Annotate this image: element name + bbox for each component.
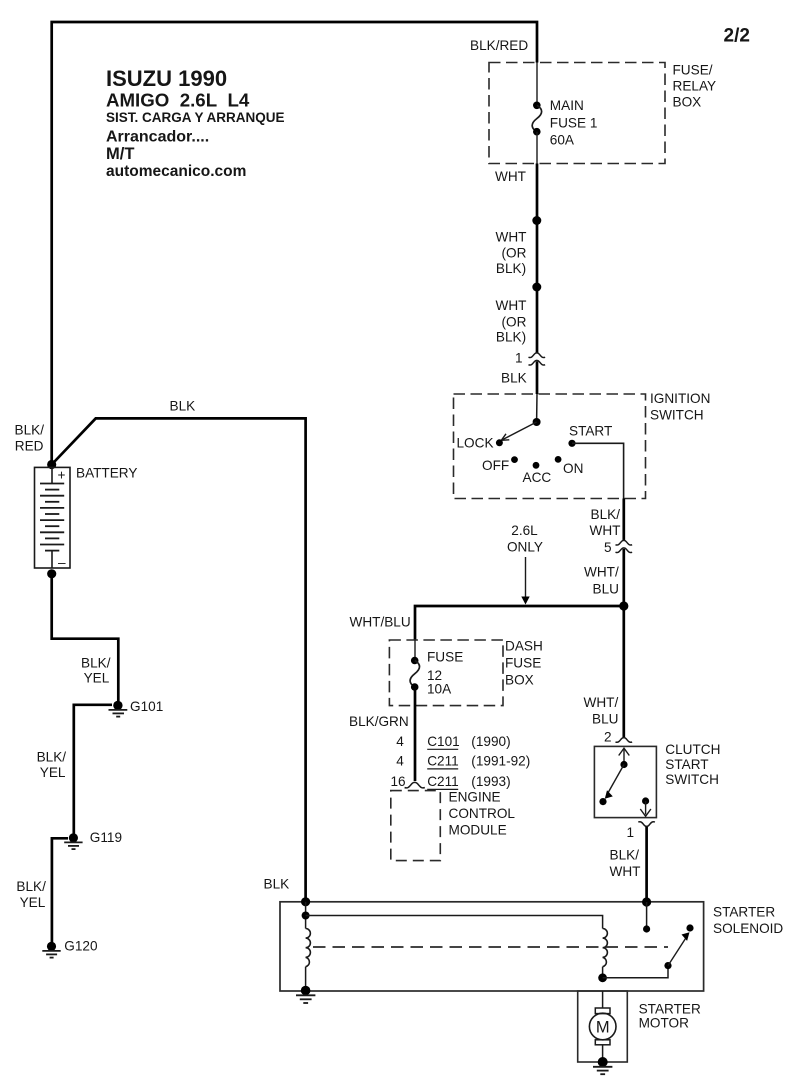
svg-text:BLK: BLK	[264, 877, 290, 892]
svg-text:M/T: M/T	[106, 145, 134, 163]
label BLK/YEL (middle)	[37, 750, 67, 781]
svg-text:FUSE: FUSE	[427, 650, 463, 665]
svg-text:AMIGO 2.6L L4: AMIGO 2.6L L4	[106, 90, 250, 111]
svg-text:WHT: WHT	[590, 523, 621, 538]
svg-text:2.6L: 2.6L	[511, 523, 538, 538]
svg-text:–: –	[58, 555, 66, 570]
svg-text:G119: G119	[90, 830, 122, 845]
clutch switch arm	[605, 765, 624, 799]
svg-text:BOX: BOX	[673, 95, 702, 110]
node BLK at solenoid	[301, 897, 310, 906]
label IGNITION SWITCH	[650, 391, 710, 423]
svg-text:C211: C211	[427, 754, 459, 769]
wire out of fuse (thin)	[536, 132, 538, 164]
svg-text:(1993): (1993)	[471, 774, 510, 789]
svg-text:RELAY: RELAY	[673, 79, 717, 94]
svg-text:C101: C101	[427, 734, 460, 749]
svg-text:IGNITION: IGNITION	[650, 391, 710, 406]
connector 16 arc at ECM	[405, 782, 425, 788]
wire BLK/YEL G119 to G120	[52, 838, 68, 942]
svg-text:DASH: DASH	[505, 639, 543, 654]
node motor ground	[598, 1057, 608, 1067]
svg-text:(1991-92): (1991-92)	[471, 754, 530, 769]
starter solenoid box	[280, 902, 704, 991]
clutch switch up arrow	[619, 748, 630, 768]
label WHT/BLU upper	[584, 565, 619, 597]
svg-text:BLK): BLK)	[496, 261, 526, 276]
underline C101	[427, 748, 458, 750]
label FUSE 12 10A	[427, 650, 463, 697]
svg-text:MOTOR: MOTOR	[639, 1016, 690, 1031]
svg-text:(OR: (OR	[502, 246, 527, 261]
svg-text:CLUTCH: CLUTCH	[665, 742, 720, 757]
svg-text:LOCK: LOCK	[457, 436, 494, 451]
clutch start switch box	[594, 746, 656, 817]
contact ON	[555, 456, 562, 463]
svg-text:Arrancador....: Arrancador....	[106, 129, 209, 146]
pin table rows	[390, 734, 530, 789]
svg-text:M: M	[596, 1018, 610, 1036]
wire to coil contact	[646, 902, 648, 929]
wire from START contact	[572, 443, 624, 498]
wire to moving contact	[603, 966, 668, 978]
ground (motor)	[593, 1067, 612, 1074]
svg-text:2/2: 2/2	[724, 26, 750, 47]
underline C211	[427, 768, 458, 770]
arrow 2.6L ONLY down to wire	[521, 557, 529, 605]
contact ACC	[533, 462, 540, 469]
wire BLK/GRN to ECM	[414, 687, 417, 781]
wire into fuse 12	[414, 640, 416, 661]
battery	[35, 467, 71, 570]
svg-text:BLK/GRN: BLK/GRN	[349, 714, 409, 729]
label CLUTCH START SWITCH	[665, 742, 720, 787]
svg-text:STARTER: STARTER	[713, 905, 775, 920]
label 2.6L ONLY	[507, 523, 543, 555]
contact terminal	[643, 925, 650, 932]
connector 2 (single arc)	[616, 738, 633, 743]
svg-text:START: START	[569, 424, 612, 439]
svg-text:SWITCH: SWITCH	[665, 772, 719, 787]
svg-text:10A: 10A	[427, 682, 452, 697]
wire BLK/WHT to solenoid	[645, 827, 648, 902]
label BLK/YEL (lower)	[16, 879, 46, 910]
svg-text:2: 2	[604, 730, 612, 745]
engine control module box (dashed)	[391, 791, 441, 861]
node battery positive	[47, 460, 56, 469]
junction dot	[532, 283, 541, 292]
fuse/relay box (dashed)	[489, 63, 665, 164]
svg-text:WHT/BLU: WHT/BLU	[350, 615, 411, 630]
svg-text:automecanico.com: automecanico.com	[106, 163, 246, 180]
svg-text:FUSE/: FUSE/	[673, 63, 713, 78]
svg-text:WHT: WHT	[496, 230, 527, 245]
underline C211 (1993)	[427, 788, 458, 790]
connector 1 (pair of arcs)	[529, 353, 546, 365]
svg-text:BLU: BLU	[592, 712, 618, 727]
solenoid coil (left)	[306, 929, 311, 967]
svg-text:60A: 60A	[550, 133, 575, 148]
svg-text:STARTER: STARTER	[639, 1002, 701, 1017]
svg-text:WHT/: WHT/	[584, 565, 619, 580]
title block	[106, 66, 285, 180]
svg-text:(1990): (1990)	[471, 734, 510, 749]
motor M	[589, 991, 616, 1062]
ground G101	[109, 701, 128, 717]
svg-text:BLK/: BLK/	[591, 507, 621, 522]
svg-text:1: 1	[515, 351, 523, 366]
ground (solenoid)	[296, 995, 315, 1003]
svg-text:MAIN: MAIN	[550, 98, 584, 113]
wire WHT/BLU junction to connector 2	[622, 606, 625, 738]
svg-text:4: 4	[396, 754, 404, 769]
svg-text:CONTROL: CONTROL	[449, 806, 516, 821]
svg-text:BATTERY: BATTERY	[76, 466, 137, 481]
svg-text:ISUZU 1990: ISUZU 1990	[106, 66, 227, 91]
svg-text:OFF: OFF	[482, 458, 509, 473]
junction dot	[532, 216, 541, 225]
contact lower right with down arrow	[640, 797, 651, 816]
svg-text:+: +	[58, 468, 66, 483]
wire WHT/BLU connector 5 to junction	[622, 549, 625, 606]
wire BLK battery+ to starter solenoid	[52, 418, 306, 901]
svg-text:SIST. CARGA Y ARRANQUE: SIST. CARGA Y ARRANQUE	[106, 110, 285, 125]
svg-text:(OR: (OR	[502, 315, 527, 330]
wire BLK/YEL battery- to G101	[52, 574, 119, 701]
svg-text:YEL: YEL	[40, 765, 66, 780]
svg-text:FUSE 1: FUSE 1	[550, 116, 598, 131]
connector 1 under clutch switch (cup arc)	[638, 822, 655, 827]
label WHT (OR BLK) lower	[496, 298, 527, 345]
svg-text:BLK/: BLK/	[81, 656, 111, 671]
svg-text:BLK/: BLK/	[37, 750, 67, 765]
solenoid contact arm	[668, 932, 690, 965]
node coil/motor	[598, 973, 607, 982]
contact OFF	[511, 456, 518, 463]
label FUSE/RELAY BOX	[673, 63, 717, 110]
wire BLK/YEL G101 to G119	[74, 705, 112, 834]
svg-text:WHT: WHT	[496, 298, 527, 313]
dash fuse box (dashed)	[389, 640, 503, 706]
label DASH FUSE BOX	[505, 639, 543, 688]
svg-text:YEL: YEL	[20, 895, 46, 910]
svg-text:5: 5	[604, 540, 612, 555]
svg-text:16: 16	[390, 774, 405, 789]
fuse 12 10A	[410, 657, 419, 691]
svg-text:BLU: BLU	[593, 582, 619, 597]
svg-text:WHT: WHT	[495, 169, 526, 184]
contact fixed	[686, 924, 693, 931]
svg-text:SWITCH: SWITCH	[650, 408, 704, 423]
wire to hold-in winding	[306, 916, 603, 929]
svg-text:ENGINE: ENGINE	[449, 790, 501, 805]
ground G120	[42, 942, 60, 958]
svg-text:START: START	[665, 757, 708, 772]
svg-text:BLK/RED: BLK/RED	[470, 38, 528, 53]
ignition switch box (dashed)	[454, 394, 646, 499]
wire BLK/WHT ignition to connector 5	[622, 499, 625, 542]
label BLK/WHT below ignition	[590, 507, 621, 538]
label BLK/WHT lower	[610, 848, 641, 880]
label STARTER MOTOR	[639, 1002, 701, 1031]
svg-text:ON: ON	[563, 461, 583, 476]
svg-text:BLK/: BLK/	[15, 423, 45, 438]
svg-text:MODULE: MODULE	[449, 823, 507, 838]
svg-text:ACC: ACC	[523, 470, 552, 485]
svg-text:FUSE: FUSE	[505, 656, 541, 671]
contact lower left	[599, 798, 606, 805]
wire coil to ground	[305, 967, 307, 991]
connector 5 (pair of arcs)	[616, 540, 633, 552]
svg-text:C211: C211	[427, 774, 459, 789]
svg-text:WHT/: WHT/	[584, 695, 619, 710]
solenoid coil (right)	[603, 929, 608, 967]
label BLK/YEL (battery)	[81, 656, 111, 686]
svg-text:BLK: BLK	[170, 399, 196, 414]
svg-text:BLK): BLK)	[496, 330, 526, 345]
svg-text:G120: G120	[64, 939, 98, 954]
svg-text:BOX: BOX	[505, 673, 534, 688]
plunger linkage (dashed)	[313, 946, 668, 948]
svg-text:BLK/: BLK/	[16, 879, 46, 894]
svg-text:BLK/: BLK/	[610, 848, 640, 863]
wire to pull-in winding	[305, 902, 307, 929]
svg-text:ONLY: ONLY	[507, 540, 543, 555]
label MAIN FUSE 1 60A	[550, 98, 598, 148]
svg-text:4: 4	[396, 734, 404, 749]
starter motor housing	[578, 991, 628, 1062]
wire coil to motor node	[602, 967, 604, 978]
fuse MAIN FUSE 1 60A	[532, 102, 541, 136]
wire into switch pivot	[536, 394, 538, 422]
wire WHT down to connector 1	[536, 164, 539, 354]
junction dot	[619, 601, 628, 610]
label BLK/RED (battery)	[15, 423, 45, 454]
node BLK/WHT at solenoid	[642, 897, 651, 906]
node battery negative	[47, 569, 56, 578]
label ENGINE CONTROL MODULE	[449, 790, 516, 838]
contact LOCK	[496, 439, 503, 446]
contact moving	[664, 962, 671, 969]
svg-text:BLK: BLK	[501, 371, 527, 386]
wire into fuse (thin)	[536, 63, 538, 106]
wire BLK/RED battery+ up over top to fuse/relay box	[52, 22, 537, 465]
svg-text:YEL: YEL	[84, 671, 110, 686]
label WHT/BLU lower	[584, 695, 619, 727]
wire BLK into ignition switch	[536, 361, 539, 394]
svg-text:1: 1	[626, 825, 634, 840]
svg-text:SOLENOID: SOLENOID	[713, 921, 783, 936]
svg-text:WHT: WHT	[610, 864, 641, 879]
node	[302, 912, 310, 920]
label WHT (OR BLK) upper	[496, 230, 527, 277]
ignition rotor arm to LOCK	[501, 418, 540, 440]
svg-text:G101: G101	[130, 699, 163, 714]
node	[301, 986, 311, 996]
ground G119	[64, 833, 82, 849]
label STARTER SOLENOID	[713, 905, 783, 937]
wire horizontal WHT/BLU	[415, 606, 624, 640]
svg-text:RED: RED	[15, 438, 44, 453]
